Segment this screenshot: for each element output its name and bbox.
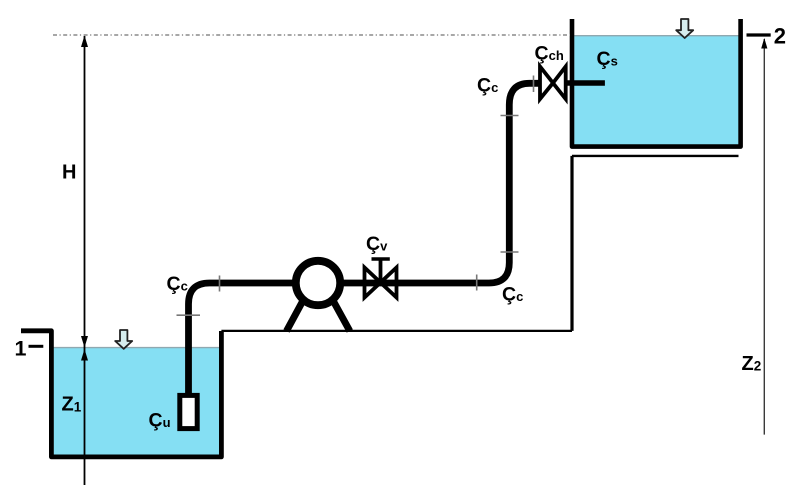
check valve body bbox=[540, 67, 566, 100]
flange tick suction horizontal bbox=[219, 276, 221, 292]
flange tick suction vertical bbox=[177, 314, 201, 316]
upper reservoir walls bbox=[572, 19, 741, 147]
datum dash-dot line bbox=[53, 34, 570, 36]
marker 1 dash bbox=[29, 345, 44, 348]
marker 2 dash bbox=[747, 33, 771, 36]
gate valve stem bbox=[379, 260, 383, 283]
pump casing bbox=[296, 261, 340, 305]
lower reservoir walls bbox=[21, 331, 221, 457]
svg-text:H: H bbox=[62, 162, 76, 184]
gate valve body bbox=[365, 268, 397, 298]
arrowhead up at datum bbox=[81, 36, 88, 48]
water surface line upper reservoir bbox=[574, 35, 738, 37]
discharge pipe into upper reservoir bbox=[566, 80, 605, 86]
flange tick vertical pipe upper bbox=[501, 115, 519, 117]
flange tick before check valve bbox=[533, 76, 535, 93]
inflow arrow upper reservoir bbox=[676, 19, 693, 38]
floor line bbox=[221, 330, 572, 332]
flange tick before lower right elbow bbox=[476, 275, 478, 291]
gate valve handle bbox=[372, 257, 390, 261]
Z2 dimension line bbox=[763, 39, 765, 435]
water lower reservoir bbox=[54, 347, 220, 455]
pump legs bbox=[287, 295, 350, 331]
water upper reservoir bbox=[574, 35, 738, 145]
inflow arrow lower reservoir bbox=[115, 330, 132, 349]
arrowhead up Z2 bbox=[761, 38, 767, 49]
suction strainer bbox=[180, 395, 197, 428]
step wall bbox=[570, 156, 573, 331]
arrowhead up below water line bbox=[81, 349, 88, 361]
water surface line lower reservoir bbox=[54, 347, 220, 349]
platform top bbox=[572, 155, 739, 157]
main pipe pump to upper elbow bbox=[343, 83, 540, 283]
suction pipe bbox=[189, 283, 294, 394]
arrowhead down at water line bbox=[81, 336, 88, 348]
flange tick vertical pipe lower bbox=[501, 251, 519, 253]
svg-text:1: 1 bbox=[15, 336, 27, 360]
H dimension line bbox=[84, 36, 86, 485]
svg-text:2: 2 bbox=[774, 24, 786, 49]
